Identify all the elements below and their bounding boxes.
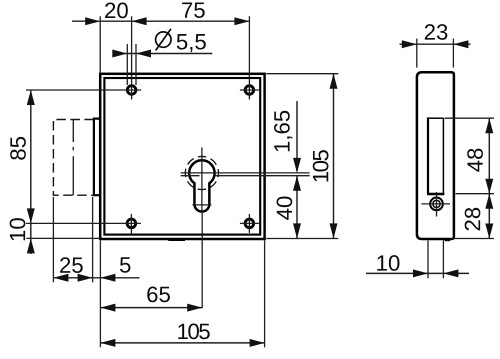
arrow 40 bottom [293, 223, 301, 238]
arrow 28 top [485, 194, 493, 209]
leader line 1,65 [296, 101, 298, 171]
extension line faceplate right [92, 197, 94, 282]
arrow 48 bottom [485, 179, 493, 194]
dimension line 10 bottom [366, 272, 469, 274]
arrow 105r top [330, 74, 338, 89]
lock case side view outline [417, 72, 454, 239]
dimension 20/75 extension line left [99, 16, 101, 73]
arrow 25 left [53, 274, 68, 282]
extension line body right lower [264, 241, 266, 348]
arrow 23 left [402, 40, 417, 48]
arrow 105b left [100, 339, 115, 347]
arrow 65 left [100, 304, 115, 312]
label 25 [60, 257, 83, 273]
extension line through top-left hole vertical [131, 16, 133, 99]
extension line groove bottom right [455, 193, 494, 195]
leader line dia 5,5 [113, 53, 213, 55]
faceplate groove bottom thick [427, 193, 444, 196]
arrow 85 top [27, 90, 35, 105]
dimension line 85 and 10 left [30, 90, 32, 255]
label 5 [120, 257, 131, 273]
dashed reference circle around cylinder [185, 156, 218, 189]
extension line top right [266, 73, 338, 75]
extension line body bottom rightside [451, 238, 494, 240]
cylinder lower reference line (1,65 offset) [181, 175, 200, 177]
arrow 10b left [413, 269, 428, 277]
dimension line 20 and 75 [72, 20, 249, 22]
dimension line 105 right [333, 74, 335, 239]
label 5,5 [177, 34, 206, 52]
cylinder stem centre tick [192, 204, 211, 206]
dimension line 48 [488, 118, 490, 194]
label 85 [10, 137, 26, 160]
faceplate groove side view [427, 117, 429, 194]
side view hole cross [422, 203, 451, 205]
arrow 10b right [443, 269, 458, 277]
arrow 28 bottom [485, 224, 493, 239]
bottom-left hole cross [130, 214, 132, 234]
extension line through top-left hole horizontal [26, 89, 141, 91]
label 48 [467, 149, 483, 172]
arrow 65 right [187, 304, 202, 312]
screw hole bottom-left [127, 219, 136, 228]
label 105 right [313, 150, 329, 181]
cylinder vertical centre line [201, 148, 203, 213]
bottom-right hole cross [248, 214, 250, 233]
dimension 23 extension lines [416, 39, 418, 68]
extension line groove top right [445, 117, 494, 119]
arrow at left edge for 20 [85, 17, 100, 25]
screw hole bottom-right [245, 219, 254, 228]
arrow at hole centre for 20/75 [132, 17, 147, 25]
dimension line 25 and 5 [53, 277, 139, 279]
arrow 105b right [250, 339, 265, 347]
arrow dia left [112, 50, 127, 58]
euro profile cylinder hole [189, 160, 214, 211]
hidden faceplate rectangle (dashed) [53, 120, 94, 196]
left faceplate tab (solid) [94, 119, 100, 196]
label 28 [465, 208, 481, 231]
dimension 10 extension lines bottom [427, 241, 429, 279]
arrow 5 outside [100, 274, 115, 282]
screw hole top-left [127, 86, 136, 95]
lock case front view inner lid outline [104, 78, 260, 235]
label 20 [105, 3, 128, 19]
extension line body left lower [99, 241, 101, 348]
arrow 10 bottom outside [27, 238, 35, 253]
top-right hole cross [248, 16, 250, 99]
extension line bottom right [266, 238, 338, 240]
extension line faceplate left [52, 197, 54, 282]
bottom mounting tab front view [168, 238, 185, 241]
faceplate centre line (dashed) [72, 120, 74, 196]
arrow dia right [136, 50, 151, 58]
dimension line 65 [100, 307, 202, 309]
dimension line 40 [296, 176, 298, 239]
bottom mounting tab side view [445, 238, 450, 241]
label 23 [425, 24, 448, 40]
diameter symbol [156, 32, 171, 47]
label 105 bottom [178, 324, 209, 340]
extension line cylinder centre lower [201, 212, 203, 308]
extension lines hole diameter [126, 44, 128, 85]
lock case front view outer outline [100, 74, 264, 239]
extension line body bottom to left [26, 237, 100, 239]
label 65 [147, 287, 170, 303]
screw hole top-right [245, 86, 254, 95]
label 75 [182, 2, 205, 18]
arrow 40 top [293, 176, 301, 191]
arrow right end of 75 [234, 17, 249, 25]
label 1,65 [274, 111, 292, 152]
arrow 48 top [485, 118, 493, 133]
arrow 1,65 [293, 158, 301, 173]
label 40 [277, 197, 293, 220]
dimension line 105 bottom [100, 342, 264, 344]
arrow 85 bottom / 10 top [27, 208, 35, 223]
dimension line 28 [488, 194, 490, 239]
arrow 25 right [78, 274, 93, 282]
side view screw hole inner [433, 200, 440, 207]
cylinder horizontal centre line [181, 172, 310, 174]
label 10 bottom [377, 255, 399, 271]
side view screw hole outer [430, 198, 443, 211]
arrow 105r bottom [330, 223, 338, 238]
label 10 left [10, 218, 26, 240]
dimension line 23 [400, 43, 471, 45]
arrow 23 right [453, 40, 468, 48]
